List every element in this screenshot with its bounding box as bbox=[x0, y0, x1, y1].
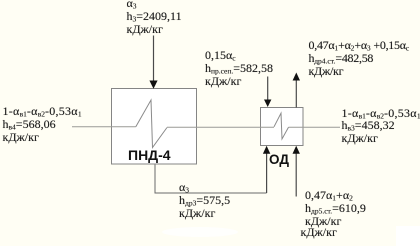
node label: separator drain inflow (middle) bbox=[205, 49, 273, 87]
label: heater name ПНД-4 bbox=[128, 147, 171, 163]
node label: extraction steam alpha3 (top) bbox=[127, 0, 182, 35]
heating surface zigzag inside ПНД-4 bbox=[136, 100, 167, 148]
arrow: 0,15ac into ОД top bbox=[267, 77, 269, 101]
wire: main condensate line left stub bbox=[72, 126, 136, 128]
wire: main condensate line between boxes bbox=[167, 126, 274, 128]
wire: drain from ПНД-4 bottom, down then right bbox=[155, 165, 267, 194]
arrow: drain 0,47a1+a2 into ОД bottom-right bbox=[295, 152, 297, 197]
arrow: drains out of ОД, upward bbox=[295, 79, 297, 108]
node label: main condensate out (left) bbox=[3, 105, 82, 143]
node label: combined drains out (top right) bbox=[309, 39, 410, 77]
heater box ПНД-4 bbox=[112, 89, 197, 165]
scan artifact: white patch bottom right bbox=[396, 226, 420, 246]
label: drain cooler name ОД bbox=[269, 152, 289, 167]
scan artifact: faint smudge bottom center bbox=[162, 227, 238, 237]
arrow: steam alpha3 into ПНД-4 top bbox=[153, 36, 155, 83]
arrow: drain into ОД bottom-left bbox=[266, 152, 268, 193]
heating surface zigzag inside ОД bbox=[274, 113, 289, 139]
node label: heater drain alpha3 (bottom center) bbox=[179, 181, 230, 219]
node label: extra кДж/кг line (bottom right) bbox=[301, 226, 337, 239]
node label: main condensate in (right) bbox=[342, 107, 420, 145]
drain cooler box ОД bbox=[261, 108, 304, 146]
wire: main condensate line right stub bbox=[289, 126, 341, 128]
node label: drain inflow 0,47a1+a2 (bottom right) bbox=[305, 189, 366, 227]
